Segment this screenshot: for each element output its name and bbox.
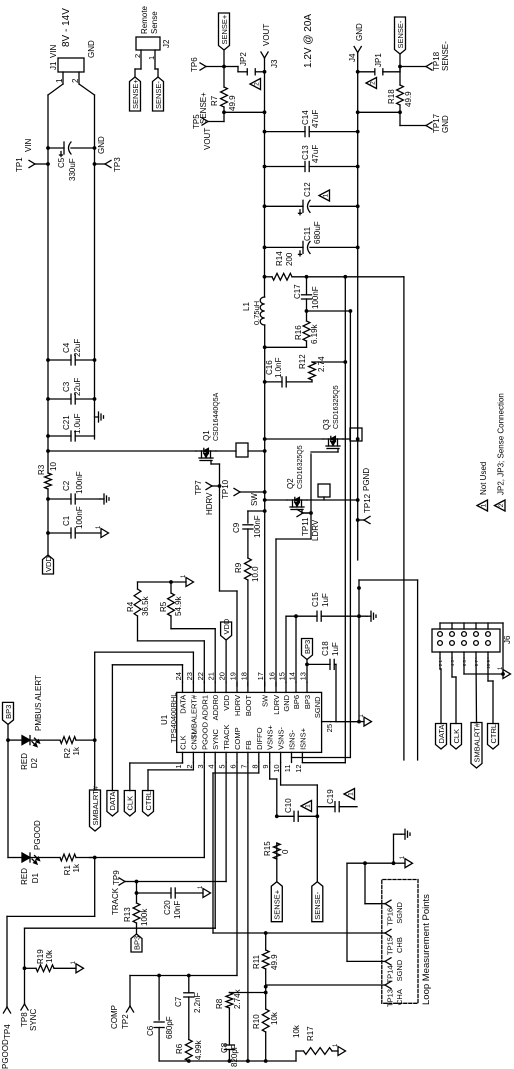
svg-text:SENSE-: SENSE-: [154, 81, 163, 109]
svg-text:10k: 10k: [270, 1011, 279, 1025]
svg-text:C11: C11: [303, 226, 312, 241]
svg-text:CHB: CHB: [395, 937, 404, 953]
resistor R3: [37, 462, 58, 489]
capacitor C7: [174, 976, 202, 1040]
net flag SENSE- in: [312, 882, 323, 922]
svg-text:SENSE-: SENSE-: [313, 891, 322, 919]
capacitor C17: [293, 277, 320, 311]
wire SW rail: [264, 325, 266, 686]
svg-text:CTRL: CTRL: [489, 724, 498, 744]
testpoint TP1: [15, 138, 50, 172]
svg-text:SENSE+: SENSE+: [199, 92, 208, 124]
net flag BP3 pin13: [302, 639, 313, 683]
svg-text:COMP: COMP: [233, 727, 242, 750]
net flag VDD: [43, 555, 54, 574]
svg-text:TRACK: TRACK: [222, 724, 231, 749]
capacitor C11: [263, 221, 360, 256]
testpoint TP10: [221, 479, 267, 506]
wire ADDR gnd: [138, 580, 187, 584]
svg-text:TRACK: TRACK: [111, 887, 120, 915]
wire TP16: [365, 863, 382, 904]
svg-text:J3: J3: [270, 59, 279, 68]
svg-text:1: 1: [323, 193, 330, 197]
text 8V-14V: [61, 8, 72, 47]
wire C16 R12 branch: [263, 360, 347, 384]
svg-text:1: 1: [481, 503, 488, 507]
svg-text:C5: C5: [57, 157, 66, 168]
warning triangle 2 JP1: [366, 78, 377, 89]
svg-text:6: 6: [229, 764, 238, 768]
svg-text:SENSE-: SENSE-: [396, 20, 405, 48]
svg-text:100nF: 100nF: [75, 471, 84, 494]
wire Q1 drain: [46, 449, 196, 453]
resistor R4: [126, 582, 204, 682]
resistor R6: [175, 1039, 203, 1061]
svg-text:ADDR0: ADDR0: [211, 695, 220, 720]
svg-text:VOUT: VOUT: [203, 128, 212, 150]
svg-text:R15: R15: [263, 841, 272, 856]
svg-text:R3: R3: [37, 464, 46, 475]
resistor R19: [25, 949, 77, 972]
svg-text:VDD: VDD: [222, 694, 231, 710]
svg-text:LDRV: LDRV: [272, 695, 281, 715]
svg-text:14: 14: [288, 672, 297, 680]
svg-text:2: 2: [498, 503, 505, 507]
svg-text:1: 1: [174, 764, 183, 768]
svg-text:54.9k: 54.9k: [174, 595, 183, 616]
wire VSNS- line: [281, 762, 320, 881]
testpoint TP8: [20, 1004, 38, 1031]
svg-text:RED: RED: [20, 868, 29, 885]
svg-text:J4: J4: [348, 53, 357, 62]
svg-text:BP3: BP3: [4, 705, 13, 719]
ground: [333, 1043, 346, 1056]
svg-text:7: 7: [239, 764, 248, 768]
svg-text:C7: C7: [174, 996, 183, 1007]
svg-text:R12: R12: [298, 354, 307, 369]
svg-text:C6: C6: [146, 1025, 155, 1036]
svg-text:2: 2: [370, 81, 377, 85]
svg-text:C3: C3: [62, 381, 71, 392]
capacitor C9: [232, 515, 262, 538]
svg-text:200: 200: [285, 252, 294, 266]
warning triangle 1 C19: [344, 789, 355, 800]
resistor R7: [210, 87, 237, 111]
resistor R17: [292, 1024, 338, 1061]
svg-text:R11: R11: [252, 954, 261, 969]
wire J2 pin1: [147, 50, 158, 77]
svg-text:GND: GND: [282, 694, 291, 711]
svg-text:R18: R18: [387, 89, 396, 104]
svg-text:C18: C18: [321, 641, 330, 656]
connector J1: [49, 40, 96, 84]
svg-text:1: 1: [147, 56, 156, 60]
svg-text:PGOOD: PGOOD: [200, 721, 209, 750]
svg-text:330uF: 330uF: [68, 158, 77, 181]
ground: [498, 666, 511, 679]
svg-text:HDRV: HDRV: [233, 695, 242, 716]
svg-text:RED: RED: [20, 753, 29, 770]
svg-text:TP12: TP12: [363, 493, 372, 513]
svg-text:CSD16325Q5: CSD16325Q5: [333, 385, 340, 429]
svg-text:PGND: PGND: [362, 468, 371, 491]
transistor Q1: [196, 392, 267, 464]
svg-text:C21: C21: [62, 415, 71, 430]
svg-text:36.5k: 36.5k: [141, 595, 150, 616]
svg-text:C16: C16: [265, 360, 274, 375]
wire J2 pin2: [133, 50, 142, 77]
svg-text:10nF: 10nF: [173, 901, 182, 919]
net flag SENSE-: [153, 77, 164, 111]
svg-text:6.19k: 6.19k: [310, 323, 319, 344]
svg-text:R10: R10: [252, 1014, 261, 1029]
svg-text:1.2V @ 20A: 1.2V @ 20A: [303, 14, 314, 68]
svg-text:4: 4: [207, 764, 216, 768]
svg-text:2: 2: [254, 82, 261, 86]
wire ISNS- line: [292, 309, 353, 757]
svg-text:1uF: 1uF: [331, 642, 340, 656]
ground: [394, 855, 413, 868]
svg-text:VIN: VIN: [49, 44, 58, 58]
svg-text:13: 13: [299, 672, 308, 680]
svg-text:2: 2: [133, 54, 142, 58]
net flag SENSE+ in: [271, 882, 282, 922]
svg-text:CLK: CLK: [452, 729, 461, 744]
svg-text:23: 23: [185, 672, 194, 680]
svg-text:Q1: Q1: [202, 430, 211, 441]
svg-text:BP3: BP3: [132, 936, 141, 950]
svg-text:TP15: TP15: [386, 937, 395, 955]
net flag SENSE+: [130, 77, 141, 111]
svg-text:CSD16325Q5: CSD16325Q5: [297, 445, 304, 489]
capacitor C1: [46, 506, 101, 538]
capacitor C21: [46, 413, 94, 441]
svg-text:D2: D2: [30, 757, 39, 768]
svg-text:R1: R1: [63, 864, 72, 875]
svg-text:C20: C20: [163, 900, 172, 915]
svg-text:ISNS+: ISNS+: [298, 727, 307, 750]
svg-text:2: 2: [71, 78, 80, 83]
svg-text:2.74: 2.74: [317, 356, 326, 372]
svg-text:SGND: SGND: [313, 696, 322, 718]
svg-text:TP16: TP16: [386, 908, 395, 926]
svg-text:22uF: 22uF: [73, 339, 82, 357]
resistor R15: [263, 841, 290, 859]
svg-text:VIN: VIN: [24, 138, 33, 152]
inductor L1: [242, 297, 265, 325]
wire VIN rail: [48, 84, 63, 556]
capacitor C5: [46, 142, 96, 181]
net flag SENSE+ out: [219, 13, 230, 67]
diode D1: [8, 820, 60, 885]
svg-text:0: 0: [281, 849, 290, 854]
svg-text:1.0nF: 1.0nF: [274, 357, 283, 378]
ground: [181, 574, 194, 587]
node SENSE+ out: [222, 65, 226, 69]
wire TP14: [347, 861, 395, 961]
resistor R16: [294, 321, 319, 344]
svg-text:10k: 10k: [292, 1024, 301, 1038]
svg-text:1.0uF: 1.0uF: [73, 413, 82, 434]
IC U1 TPS40400RHL: [160, 672, 334, 773]
svg-text:22: 22: [196, 672, 205, 680]
svg-text:C4: C4: [62, 342, 71, 353]
ground: [100, 494, 109, 504]
svg-text:TP3: TP3: [113, 157, 122, 172]
wire LDRV: [276, 452, 338, 686]
diode D2: [8, 675, 60, 770]
svg-text:VDD: VDD: [222, 618, 231, 634]
svg-text:R19: R19: [36, 949, 45, 964]
svg-text:ISNS-: ISNS-: [288, 729, 297, 750]
svg-text:1k: 1k: [72, 863, 81, 872]
connector J2: [136, 5, 171, 50]
svg-text:C15: C15: [311, 592, 320, 607]
svg-text:TP11: TP11: [301, 517, 310, 536]
svg-text:GND: GND: [87, 40, 96, 58]
svg-text:TP10: TP10: [221, 479, 230, 499]
wire GND rail: [79, 84, 95, 439]
ground: [71, 960, 84, 973]
svg-text:DATA: DATA: [437, 725, 446, 744]
svg-text:C13: C13: [301, 145, 310, 160]
svg-text:49.9: 49.9: [228, 95, 237, 111]
transistor Q3: [263, 385, 362, 452]
svg-text:FB: FB: [244, 740, 253, 750]
svg-text:1: 1: [305, 804, 312, 808]
warning triangle 1 C12: [319, 190, 330, 201]
net flag CTRL ic: [143, 762, 194, 816]
wire VSNS+ line: [270, 762, 279, 881]
svg-text:SGND: SGND: [395, 959, 404, 981]
svg-text:Remote: Remote: [140, 5, 149, 34]
wire PGND sense: [356, 67, 402, 115]
testpoint TP9: [111, 870, 137, 915]
connector J6: [432, 623, 512, 669]
svg-text:4.99k: 4.99k: [194, 1039, 203, 1060]
svg-text:47uF: 47uF: [311, 145, 320, 163]
svg-text:SYNC: SYNC: [29, 1009, 38, 1031]
svg-text:VOUT: VOUT: [262, 24, 271, 46]
svg-text:15: 15: [278, 672, 287, 680]
svg-text:8: 8: [250, 764, 259, 768]
testpoint TP18: [400, 41, 450, 71]
svg-text:680uF: 680uF: [313, 221, 322, 244]
wire FB rail: [159, 1059, 296, 1063]
resistor R1: [60, 854, 95, 875]
wire ISNS+ line: [302, 277, 345, 763]
svg-text:TP14: TP14: [386, 965, 395, 983]
testpoint TP11: [297, 509, 320, 541]
resistor R10: [252, 1009, 279, 1032]
svg-text:100nF: 100nF: [311, 286, 320, 309]
capacitor C10: [277, 798, 318, 822]
svg-text:ADDR1: ADDR1: [200, 695, 209, 720]
capacitor C13: [263, 145, 360, 172]
svg-text:25: 25: [325, 724, 334, 732]
connector J4: [348, 23, 364, 62]
svg-text:TP13: TP13: [386, 989, 395, 1007]
svg-text:BP3: BP3: [303, 640, 312, 654]
svg-text:TP6: TP6: [190, 57, 199, 72]
capacitor C18: [305, 641, 340, 722]
svg-text:11: 11: [283, 764, 292, 772]
resistor R18: [387, 85, 413, 107]
svg-text:100k: 100k: [140, 908, 149, 926]
resistor R11: [252, 950, 279, 970]
capacitor C19: [317, 789, 357, 817]
svg-text:R16: R16: [294, 325, 303, 340]
capacitor C15: [286, 592, 367, 683]
net flag SENSE- out: [395, 17, 406, 67]
svg-text:GND: GND: [97, 136, 106, 154]
svg-text:16: 16: [268, 672, 277, 680]
svg-text:SMBALERT#: SMBALERT#: [189, 694, 198, 739]
svg-text:Q3: Q3: [322, 419, 331, 430]
svg-text:CTRL: CTRL: [144, 791, 153, 811]
testpoint TP5: [192, 112, 224, 150]
svg-text:1k: 1k: [72, 746, 81, 755]
svg-text:3: 3: [196, 764, 205, 768]
ground: [95, 412, 104, 422]
capacitor C6: [146, 976, 174, 1062]
svg-text:DATA: DATA: [108, 792, 117, 811]
warning triangle 1 legend: [477, 462, 488, 511]
svg-text:20: 20: [218, 672, 227, 680]
wire FB line: [248, 762, 268, 1061]
testpoint TP7: [194, 480, 221, 515]
svg-text:LDRV: LDRV: [311, 519, 320, 541]
wire corridor C: [417, 580, 419, 760]
resistor R5: [159, 582, 215, 682]
capacitor C14: [263, 110, 360, 137]
transistor Q2: [263, 445, 360, 513]
svg-text:49.9: 49.9: [270, 954, 279, 970]
wire VOUT sense: [222, 67, 266, 115]
resistor R9: [234, 558, 260, 582]
svg-text:SGND: SGND: [395, 901, 404, 923]
svg-text:JP2, JP3; Sense Connection: JP2, JP3; Sense Connection: [497, 393, 506, 495]
wire SMBALERT#: [93, 652, 194, 790]
svg-text:DATA: DATA: [179, 695, 188, 714]
svg-text:Not Used: Not Used: [479, 462, 488, 495]
svg-text:VDD: VDD: [44, 556, 53, 572]
svg-text:24: 24: [174, 672, 183, 680]
wire J6 gnd bus: [440, 623, 505, 676]
wire TP13: [266, 984, 382, 986]
svg-text:Sense: Sense: [150, 11, 159, 34]
svg-text:10k: 10k: [45, 949, 54, 963]
svg-text:12: 12: [294, 764, 303, 772]
svg-text:C9: C9: [232, 522, 241, 533]
wire TP4 run: [7, 858, 95, 1008]
svg-text:19: 19: [229, 672, 238, 680]
svg-text:TP17: TP17: [432, 113, 441, 133]
svg-text:GND: GND: [441, 115, 450, 133]
svg-text:JP2: JP2: [239, 52, 248, 66]
svg-text:2.74k: 2.74k: [233, 988, 242, 1009]
svg-text:TP1: TP1: [15, 157, 24, 172]
svg-text:R14: R14: [275, 251, 284, 266]
svg-text:8V - 14V: 8V - 14V: [61, 8, 72, 47]
svg-text:SENSE+: SENSE+: [220, 14, 229, 44]
svg-text:R8: R8: [215, 998, 224, 1009]
svg-text:C17: C17: [293, 284, 302, 299]
node C17-R14: [305, 275, 309, 279]
svg-text:DIFFO: DIFFO: [255, 727, 264, 750]
svg-text:1uF: 1uF: [321, 593, 330, 607]
svg-text:GND: GND: [355, 23, 364, 41]
ground: [198, 885, 211, 898]
svg-text:BP3: BP3: [303, 695, 312, 709]
svg-text:10: 10: [272, 764, 281, 772]
ground: [367, 611, 376, 621]
wire corridor B: [343, 275, 404, 760]
svg-text:100nF: 100nF: [75, 506, 84, 529]
svg-text:SENSE+: SENSE+: [131, 79, 140, 109]
node SENSE- out: [398, 65, 402, 69]
warning triangle 2 JP2: [250, 79, 261, 90]
svg-text:TP7: TP7: [194, 480, 203, 495]
svg-text:VSNS+: VSNS+: [266, 724, 275, 749]
svg-text:TP8: TP8: [20, 1012, 29, 1027]
svg-text:Q2: Q2: [286, 478, 295, 489]
text 1.2V @ 20A: [303, 14, 314, 68]
jumper JP1: [356, 53, 400, 75]
svg-text:PMBUS ALERT: PMBUS ALERT: [34, 675, 43, 731]
svg-text:SMBALRT#: SMBALRT#: [472, 722, 481, 762]
svg-text:5: 5: [218, 764, 227, 768]
net flag SMBALRT#: [90, 785, 101, 831]
wire TRACK: [135, 762, 227, 934]
svg-text:J2: J2: [162, 39, 171, 48]
svg-text:D1: D1: [31, 872, 40, 883]
warning triangle 2 legend: [495, 393, 506, 511]
connector J3: [261, 24, 279, 68]
svg-text:C14: C14: [301, 110, 310, 125]
net flag CTRL j6: [488, 658, 499, 749]
resistor R12: [298, 354, 326, 380]
capacitor C3: [46, 378, 96, 404]
svg-text:C10: C10: [284, 798, 293, 813]
svg-text:COMP: COMP: [110, 1005, 119, 1029]
wire BOOT: [248, 509, 267, 686]
wire SGND: [331, 580, 361, 724]
svg-text:PGOOD: PGOOD: [33, 820, 42, 850]
svg-text:TP4: TP4: [3, 1024, 12, 1039]
svg-text:SW: SW: [261, 694, 270, 707]
capacitor C2: [46, 471, 100, 504]
resistor R2: [60, 737, 95, 759]
net flag SMBALRT# j6: [471, 658, 482, 768]
wire VOUT rail: [264, 58, 266, 297]
svg-text:R7: R7: [210, 95, 219, 106]
svg-text:TPS40400RHL: TPS40400RHL: [169, 693, 178, 743]
svg-text:R6: R6: [175, 1043, 184, 1054]
svg-text:CLK: CLK: [126, 796, 135, 811]
net flag CLK ic: [124, 762, 182, 816]
svg-text:L1: L1: [242, 302, 251, 311]
wire corridor A: [359, 580, 418, 863]
wire R16 branch: [263, 311, 307, 349]
net flag CLK j6: [451, 658, 462, 749]
svg-text:PGOOD: PGOOD: [1, 1039, 10, 1069]
wire COMP: [130, 762, 237, 1006]
testpoint TP4: [1, 1007, 12, 1069]
svg-text:22uF: 22uF: [73, 378, 82, 396]
testpoint TP6: [190, 57, 224, 124]
svg-text:0.75uH: 0.75uH: [252, 301, 261, 325]
